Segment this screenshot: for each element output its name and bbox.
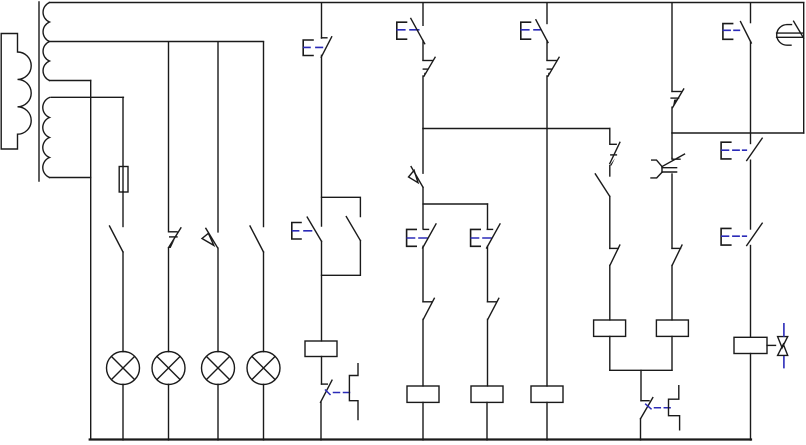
wire: column B to pushbutton — [422, 204, 424, 229]
wire: column G upper — [750, 42, 752, 144]
pushbutton E2 left pole blade — [307, 217, 321, 241]
lamp H1 — [107, 352, 140, 385]
switch S9 (roller operated contact) — [651, 154, 685, 178]
wire: column F to coil — [671, 265, 673, 320]
coil K2 — [407, 386, 439, 402]
pushbutton E4 (NO) — [407, 224, 436, 248]
wire: column E upper mid — [609, 166, 611, 177]
wire: coil Y1 to valve — [767, 344, 776, 346]
wire: column B drop from top bus — [422, 3, 424, 25]
wire: coil K1 to trip contact — [321, 357, 323, 385]
wire: column B to bottom bus — [422, 402, 424, 440]
wire: lamp column 1 upper — [122, 97, 124, 166]
wire: lamp column 1 middle — [122, 192, 124, 227]
wire: lamp column 3 upper — [217, 42, 219, 232]
transformer T1 secondary winding 2 — [43, 98, 50, 178]
wire: drop from join bar — [640, 370, 642, 400]
valve V1 — [778, 324, 788, 368]
wire: common rail vertical x=91 — [90, 81, 92, 440]
contact K-NC D1 — [547, 57, 559, 76]
wire: column A to twin pushbutton — [321, 55, 323, 226]
wire: lamp column 1 lower — [122, 252, 124, 352]
wire: column D verticals — [546, 41, 548, 61]
wire: column C to coil — [487, 319, 489, 386]
trip link dashes Q1 — [326, 390, 350, 395]
twin pushbutton E2 bridge top — [322, 197, 361, 216]
wire: lamp column 4 to bus — [263, 384, 265, 440]
pushbutton E3 (NO) — [397, 18, 425, 43]
switch S5 (proximity contact) — [409, 167, 424, 188]
trip actuator Q1 — [349, 364, 358, 420]
wire: column D to bottom bus — [546, 402, 548, 440]
coil K5 — [594, 320, 626, 336]
wire: column G between NC buttons — [750, 160, 752, 229]
trip contact Q2 — [641, 398, 653, 419]
wire: column B to coil — [422, 319, 424, 386]
wire: column A to coil — [321, 241, 323, 341]
switch S2 (contact with tick) — [169, 228, 181, 248]
coil K1 — [305, 341, 337, 357]
wire: column E to coil — [609, 265, 611, 320]
horn H5 — [777, 21, 804, 45]
wire: column F to bar2 — [671, 107, 673, 133]
wire: column B branch bar — [423, 187, 488, 204]
contact K-NC E1 — [610, 245, 620, 265]
wire: to bottom bus — [640, 419, 642, 440]
contact K-NC C1 — [488, 298, 499, 319]
twin pushbutton E2 bridge bottom — [322, 241, 361, 276]
wire: lamp column 4 lower — [263, 252, 265, 352]
contact K-NC B2 — [423, 298, 434, 319]
trip actuator Q2 — [669, 386, 680, 430]
wire: junction bar 2 — [672, 132, 804, 134]
wire: column F mid — [671, 174, 673, 248]
wire: join bar below coils — [610, 369, 672, 371]
wire: lamp column 2 to bus — [168, 384, 170, 440]
wire: lamp column 2 upper — [168, 42, 170, 231]
wire: column G drop from top bus — [750, 3, 752, 23]
switch S1 (NO contact) — [110, 226, 124, 252]
pushbutton E1 (NO) — [303, 37, 332, 57]
wire: column C drop — [487, 204, 489, 229]
coil K4 — [531, 386, 563, 402]
switch S4 (NO contact) — [250, 226, 264, 252]
fuse F1 — [119, 167, 128, 193]
switch S8 (contact with tick) — [671, 89, 684, 108]
trip link dashes Q2 — [646, 404, 670, 409]
pushbutton E7 (NO, black label) — [723, 22, 751, 43]
pushbutton E5 (NO) — [471, 224, 500, 248]
transformer T1 primary winding — [1, 34, 31, 150]
wire: column B to junction bar — [422, 41, 424, 61]
wire: column A to bottom bus — [320, 402, 322, 440]
wire: column B below bar — [422, 129, 424, 174]
wire: top bus L1 — [50, 2, 804, 4]
wire: column D drop from top bus — [546, 3, 548, 24]
trip contact Q1 — [321, 380, 333, 402]
wire: column E drop from bar1 — [609, 129, 611, 144]
transformer T1 core — [38, 2, 40, 181]
coil K3 — [471, 386, 503, 402]
wire: column F below bar2 — [671, 133, 673, 158]
wire: column E mid — [609, 196, 611, 248]
wire: junction bar 1 — [423, 128, 610, 130]
pushbutton E9 (NC) — [721, 223, 762, 245]
wire: secondary2 bottom tap — [50, 177, 91, 179]
wire: lamp column 1 to bus — [122, 384, 124, 440]
wire: lamp column 4 upper — [263, 42, 265, 227]
wire: column G to bottom bus — [750, 354, 752, 441]
wire: secondary2 top tap to fuse column — [51, 96, 123, 98]
wire: column G to coil — [750, 246, 752, 338]
pushbutton E8 (NC) — [721, 138, 762, 160]
wire: second bus L2 — [50, 41, 264, 43]
wire: bottom bus N — [90, 438, 751, 440]
lamp H2 — [152, 352, 185, 385]
wire: secondary1 bottom tap to common rail — [50, 80, 91, 82]
wire: column B mid — [422, 246, 424, 301]
wire: column C to bottom bus — [486, 402, 488, 440]
wire: right edge drop — [803, 3, 805, 133]
pushbutton E2 right pole blade — [346, 217, 360, 241]
switch S6 (contact with tick) — [610, 142, 620, 165]
wire: column F drop from top bus — [671, 3, 673, 91]
wire: column A drop from top bus — [321, 3, 323, 38]
wire: lamp column 3 to bus — [217, 384, 219, 440]
lamp H3 — [202, 352, 235, 385]
wire: lamp column 3 lower — [217, 248, 219, 352]
pushbutton E6 (NO) — [521, 20, 548, 43]
wire: lamp column 2 lower — [168, 248, 170, 352]
switch S3 (proximity contact) — [202, 228, 218, 247]
coil Y1 — [734, 337, 767, 353]
contact K-NC B1 — [423, 57, 435, 76]
wire: column E to join bar — [609, 336, 611, 370]
wire: column F to join bar — [671, 336, 673, 370]
pushbutton E2 label — [292, 223, 312, 240]
wire: column C mid — [487, 246, 489, 301]
switch S7 (NO contact) — [595, 174, 610, 197]
coil K6 — [656, 320, 688, 336]
contact K-NC F1 — [672, 245, 682, 265]
transformer T1 secondary winding 1 — [43, 3, 49, 81]
lamp H4 — [247, 352, 280, 385]
